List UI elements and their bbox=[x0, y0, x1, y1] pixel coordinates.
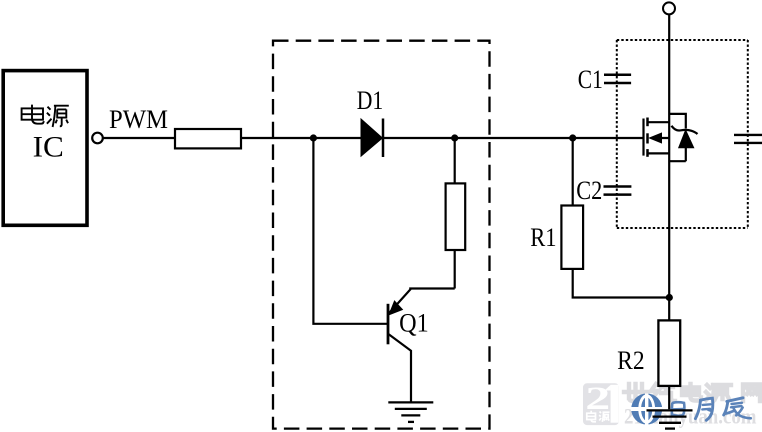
svg-text:Q1: Q1 bbox=[399, 309, 429, 338]
svg-text:PWM: PWM bbox=[109, 105, 168, 134]
svg-text:R2: R2 bbox=[617, 346, 645, 375]
svg-text:C2: C2 bbox=[576, 176, 602, 205]
svg-text:IC: IC bbox=[33, 130, 64, 163]
svg-text:C1: C1 bbox=[578, 65, 603, 94]
svg-text:R1: R1 bbox=[530, 223, 556, 252]
svg-text:D1: D1 bbox=[357, 86, 384, 115]
